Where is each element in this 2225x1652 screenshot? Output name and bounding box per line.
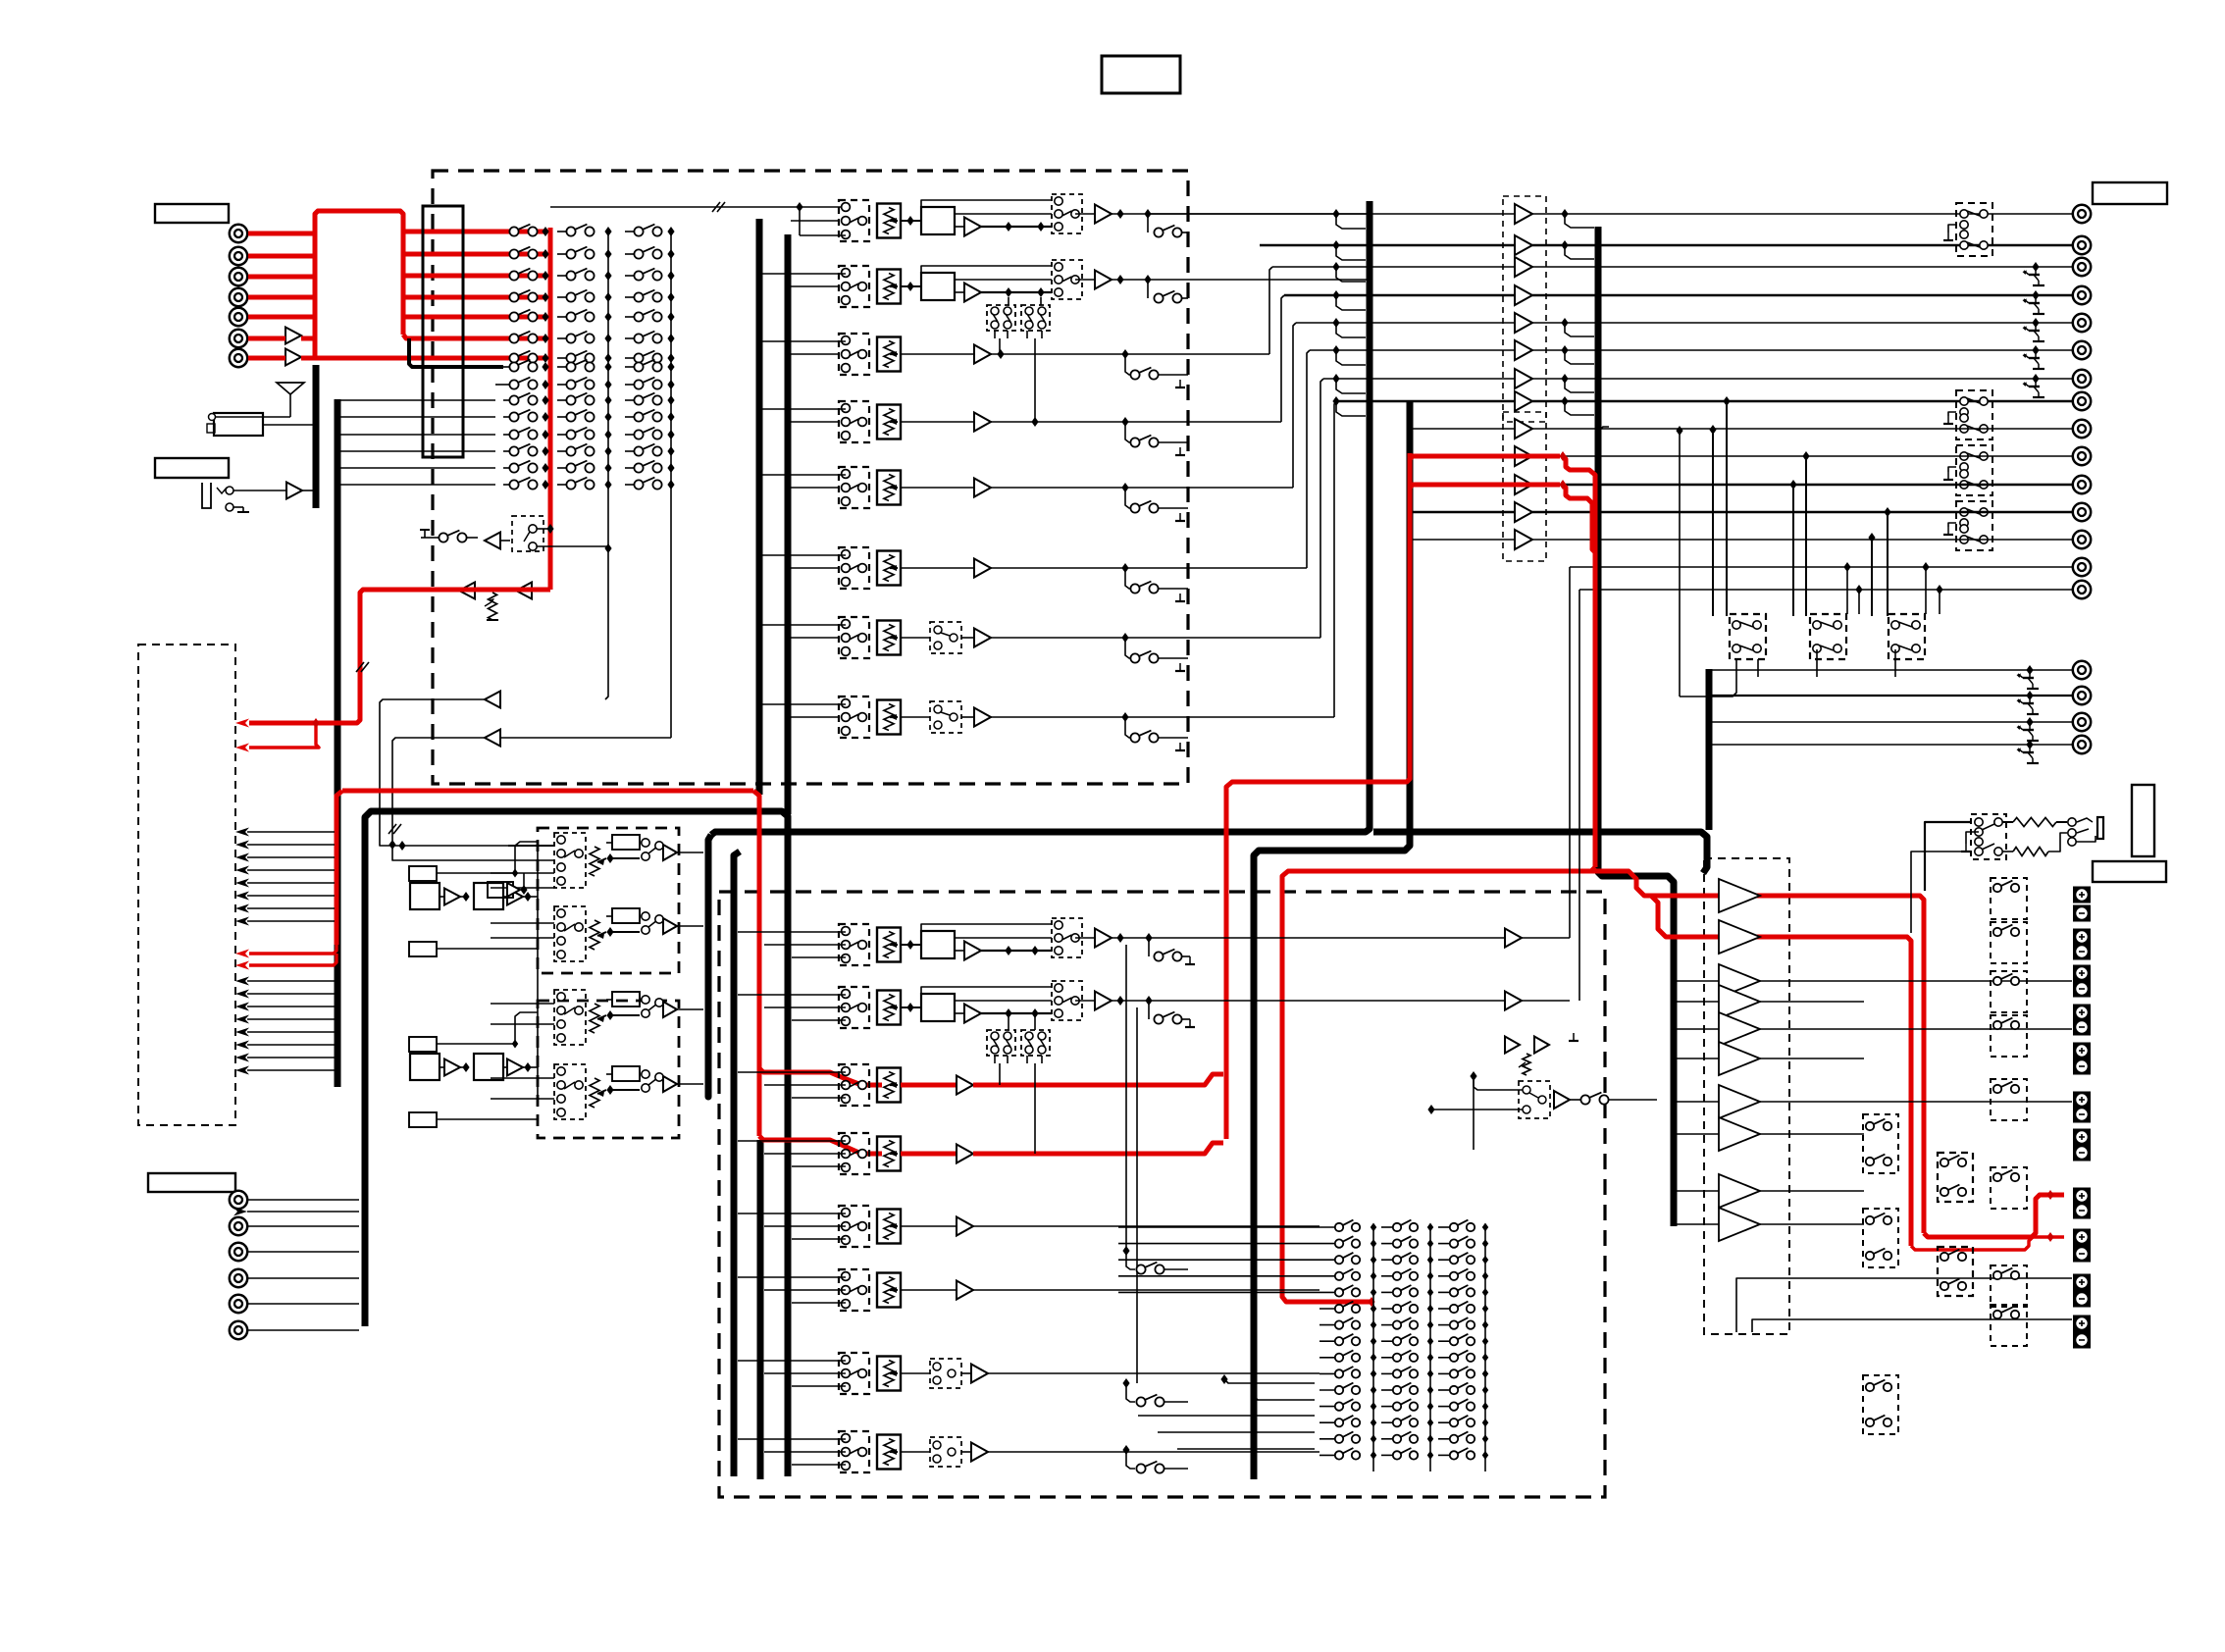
bus channel vertical C2 — [785, 234, 792, 814]
aux connector K2 — [230, 1217, 247, 1235]
st channel L amp — [964, 942, 981, 960]
st-in 1L switch amp — [642, 852, 649, 860]
group bus amp 1 — [1515, 204, 1532, 224]
channel 2 amp — [964, 284, 981, 302]
st-in 2L switch amp — [642, 1009, 649, 1017]
talkback select dashed box — [512, 516, 543, 551]
channel 2 post amp — [1075, 279, 1095, 281]
group out selector box A — [1956, 203, 1992, 256]
tape playback amp A — [285, 328, 301, 344]
channel 1 fader — [877, 204, 901, 238]
talkback amp — [485, 533, 500, 549]
channel pan boxes — [987, 305, 1015, 331]
fader send lines group2 — [247, 980, 335, 982]
aux 2 fader — [877, 1273, 901, 1308]
aux connector K4 — [230, 1269, 247, 1287]
red vertical mid — [1226, 453, 1410, 1139]
dashed box group/aux section — [719, 892, 1605, 1497]
output connector O15 — [2073, 581, 2091, 598]
lower bus amp 2 — [1515, 446, 1532, 466]
osc distribution amps — [459, 583, 475, 599]
aux st L amp — [957, 1076, 973, 1095]
monitor amp 1 — [1719, 879, 1760, 912]
monitor aux send lines — [1712, 669, 2072, 671]
lower bus amp 1 — [1515, 419, 1532, 439]
bus main vertical B1 — [708, 835, 711, 1097]
group bus row 6 — [1310, 349, 1515, 351]
red entry row C — [759, 1068, 882, 1085]
red monitor row L — [1591, 871, 1924, 1233]
phones input amp — [286, 483, 302, 499]
dashed box bus amps upper — [1503, 196, 1546, 422]
monitor amp 9 — [1719, 1174, 1760, 1208]
monitor amp 7 — [1719, 1085, 1760, 1118]
st out risers to stereo rows — [1569, 567, 1571, 938]
st-in feed lines — [508, 845, 554, 847]
aux st R amp — [957, 1145, 973, 1163]
channel 2 mute switch — [1147, 280, 1149, 298]
st channel L select box — [839, 924, 869, 965]
monitor amp 10 — [1719, 1208, 1760, 1241]
tape playback amp B — [285, 349, 301, 366]
group bus row 2 — [1260, 244, 1515, 247]
st channel R amp — [964, 1005, 981, 1023]
channel 8 feed lines — [791, 716, 839, 718]
solo select box — [1519, 1081, 1550, 1118]
st channel R fader — [877, 991, 901, 1025]
monitor select boxes col2 — [1938, 1153, 1973, 1202]
phones resistors — [2002, 821, 2013, 823]
solo amp out — [1554, 1091, 1570, 1109]
eq block group 1 — [409, 866, 437, 881]
output connector O11 — [2073, 476, 2091, 493]
channel 5 fader — [877, 471, 901, 505]
black bundle drop — [409, 338, 503, 367]
aux st L red path — [901, 1083, 957, 1088]
bus vertical left mix — [335, 399, 341, 1087]
phones jack — [202, 483, 211, 508]
label box 2TR IN — [148, 1173, 235, 1192]
st channel L eq box — [921, 931, 955, 958]
aux st R select box — [839, 1133, 869, 1174]
st channel pan boxes — [987, 1030, 1015, 1056]
talkback ground — [421, 537, 429, 539]
st-in feed marks — [388, 824, 396, 834]
aux 3 amp — [901, 1372, 930, 1374]
st channel R post amp — [1075, 1000, 1095, 1002]
group bus row 4 — [1284, 294, 1515, 297]
bus main vertical B3 black tail — [757, 1140, 764, 1479]
aux 3 select box — [839, 1353, 869, 1394]
channel 6 select box — [839, 547, 869, 589]
phones label box — [2093, 861, 2166, 882]
channel 1 post box — [1052, 194, 1082, 233]
red monitor row R — [1651, 896, 1911, 1246]
aux 3 fader — [877, 1357, 901, 1391]
channel 4 out line — [991, 421, 1281, 423]
lower bus feeds from H2 — [1598, 427, 1609, 471]
power supply box — [214, 413, 263, 436]
input connector J6 — [230, 330, 247, 347]
channel 2 feed lines — [791, 285, 839, 287]
bus vertical group right — [1598, 227, 1674, 1226]
channel 1 select box — [839, 200, 869, 241]
channel 5 mute switch — [1121, 483, 1128, 492]
aux st R fader — [877, 1137, 901, 1171]
phones feed lines — [1925, 822, 1971, 891]
aux 4 amp — [901, 1451, 930, 1453]
channel 6 fader — [877, 551, 901, 586]
aux connector K6 — [230, 1321, 247, 1339]
terminal pair T9 — [2073, 1229, 2091, 1246]
red entry row D — [759, 1136, 882, 1154]
phones select box — [1971, 814, 2006, 859]
st bus amps — [1505, 929, 1522, 948]
st channel R select box — [839, 987, 869, 1028]
st-in 2L gain box — [612, 992, 640, 1007]
aux send connector P4 — [2073, 736, 2091, 753]
st-in 2R fader — [590, 1078, 599, 1108]
channel 8 fader — [877, 700, 901, 735]
fader return line bottom — [247, 1211, 359, 1213]
channel 5 amp — [901, 487, 974, 489]
dashed box channel-input section — [433, 171, 1188, 784]
channel 4 mute switch — [1121, 417, 1128, 427]
channel 5 feed lines — [791, 487, 839, 489]
fader send lines group1 — [247, 831, 335, 833]
st channel L mute switch — [1148, 938, 1150, 956]
monitor amp 5 — [1719, 1012, 1760, 1046]
st channel L post box — [1052, 918, 1082, 957]
st-in 2R select — [554, 1064, 586, 1119]
channel 4 amp — [901, 421, 974, 423]
crosspoint matrix bottom — [1319, 1226, 1339, 1228]
group bus amp 6 — [1515, 340, 1532, 360]
st-in 2L fader — [590, 1004, 599, 1033]
output connector O3 — [2073, 258, 2091, 276]
channel 7 fader — [877, 621, 901, 655]
channel 1 post amp — [1075, 213, 1095, 215]
red input feed lines — [248, 232, 315, 236]
input connector J7 — [230, 349, 247, 367]
aux send connector P1 — [2073, 661, 2091, 679]
channel 1 feed lines — [791, 220, 839, 222]
slash mark red vertical — [356, 662, 364, 672]
output connector O10 — [2073, 447, 2091, 465]
bus horizontal H1 — [711, 201, 1370, 835]
channel 2 eq box — [906, 282, 913, 291]
monitor amp 4 — [1719, 985, 1760, 1018]
channel 8 mute switch — [1121, 712, 1128, 722]
channel 8 out line — [991, 716, 1334, 718]
input connector J4 — [230, 288, 247, 306]
output connector O7 — [2073, 370, 2091, 387]
group bus amp 7 — [1515, 369, 1532, 388]
channel 6 mute switch — [1121, 563, 1128, 573]
red terminal R — [1911, 1237, 2064, 1250]
balance risers — [1726, 401, 1728, 616]
mix bus feed lines — [340, 399, 495, 401]
bus main vertical B2 — [734, 852, 740, 1476]
aux connector K5 — [230, 1295, 247, 1313]
terminal pair T1 — [2073, 887, 2091, 903]
col3 return line — [392, 738, 671, 860]
monitor link verticals — [1125, 945, 1127, 1251]
channel 4 fader — [877, 405, 901, 439]
matrix left feeds — [1118, 1226, 1319, 1228]
monitor feed lines — [1674, 980, 1719, 982]
monitor out lines — [1760, 980, 2072, 982]
terminal pair T10 — [2073, 1274, 2091, 1291]
group bus row 1 — [1148, 213, 1515, 215]
group out selector box D — [1956, 501, 1992, 550]
channel 4 select box — [839, 401, 869, 442]
group bus amp 4 — [1515, 285, 1532, 305]
output connector O5 — [2073, 314, 2091, 332]
terminal pair T6 — [2073, 1092, 2091, 1109]
antenna symbol — [277, 383, 304, 394]
dashed box monitor amps — [1704, 858, 1789, 1334]
group bus amp 8 — [1515, 391, 1532, 411]
aux 4 fader — [877, 1435, 901, 1470]
st-in 1L gain box — [612, 835, 640, 850]
st channel R mute switch — [1148, 1001, 1150, 1019]
st-in 1R fader — [590, 920, 599, 950]
phones jack body — [2097, 817, 2103, 839]
aux 4 select box — [839, 1431, 869, 1472]
label box GROUP OUT — [2093, 182, 2167, 204]
channel 7 feed lines — [791, 637, 839, 639]
st-in 1R switch amp — [642, 926, 649, 934]
group bus row 8 — [1337, 400, 1515, 403]
dashed box bus amps lower — [1503, 412, 1546, 561]
talkback switch — [439, 533, 447, 542]
label box block diagram — [1102, 56, 1180, 93]
channel 8 amp — [901, 716, 930, 718]
channel 6 amp — [901, 567, 974, 569]
matrix lower feeds — [1224, 1379, 1315, 1383]
dashed box control/fader section left — [138, 645, 235, 1125]
output connector O6 — [2073, 341, 2091, 359]
st channel R post box — [1052, 981, 1082, 1020]
st channel feed stubs — [738, 931, 846, 933]
monitor amp 3 — [1719, 964, 1760, 998]
balance switch boxes — [1730, 614, 1766, 659]
bus vertical left input — [313, 365, 320, 508]
bus channel vertical C1 — [756, 219, 763, 795]
red return horizontal y601 — [249, 590, 550, 723]
channel 3 amp — [901, 353, 974, 355]
output connector O4 — [2073, 286, 2091, 304]
terminal pair T8 — [2073, 1188, 2091, 1205]
channel 7 select box — [839, 617, 869, 658]
lower bus amp 3 — [1515, 475, 1532, 494]
red descent east — [1282, 867, 1595, 1302]
channel 6 out line — [991, 567, 1307, 569]
channel 3 mute switch — [1121, 349, 1128, 359]
bus vertical right monitor feed — [1706, 669, 1713, 830]
terminal pair T7 — [2073, 1129, 2091, 1146]
st-in vertical ties — [537, 846, 539, 1099]
bus horizontal H1 east — [1373, 832, 1707, 873]
input connector J1 — [230, 225, 247, 242]
red crosspoint bus — [548, 228, 553, 590]
crosspoint collector col3 — [670, 232, 672, 738]
st-in 2L select — [554, 990, 586, 1045]
output connector O9 — [2073, 420, 2091, 438]
red pair to fader box — [249, 945, 336, 954]
aux st L fader — [877, 1068, 901, 1103]
st-in 1R gain box — [612, 908, 640, 923]
st channel L fader — [877, 928, 901, 962]
monitor bottom out rows — [1736, 1278, 2072, 1332]
monitor select boxes col3 — [1991, 878, 2027, 919]
channel 2 fader — [877, 270, 901, 304]
output connector O12 — [2073, 503, 2091, 521]
channel 1 amp — [964, 218, 981, 236]
aux connector K3 — [230, 1243, 247, 1261]
osc block — [488, 882, 513, 898]
aux send connector P2 — [2073, 687, 2091, 704]
channel 6 feed lines — [791, 567, 839, 569]
terminal pair T2 — [2073, 929, 2091, 946]
red terminal L — [1924, 1195, 2064, 1237]
red return arrow 1 — [235, 719, 249, 728]
label box TAPE IN — [155, 204, 229, 223]
monitor amp 8 — [1719, 1117, 1760, 1151]
red bundle loop — [315, 211, 403, 358]
channel 5 out line — [991, 487, 1293, 489]
right edge tall box — [2132, 785, 2154, 856]
terminal pair T11 — [2073, 1316, 2091, 1332]
channel 4 feed lines — [791, 421, 839, 423]
channel 7 mute switch — [1121, 633, 1128, 643]
phones jack contacts — [2068, 818, 2076, 826]
red return branch — [249, 723, 319, 748]
monitor select boxes col1 — [1863, 1114, 1898, 1173]
group bus row 5 — [1296, 322, 1515, 324]
lower bus lines — [1410, 428, 1515, 430]
terminal pair T3 — [2073, 965, 2091, 982]
st-in 1L fader — [590, 847, 599, 876]
st-in 1R select — [554, 906, 586, 961]
group bus row 7 — [1323, 378, 1515, 380]
lower bus amp 4 — [1515, 502, 1532, 522]
aux st R red path — [901, 1152, 957, 1157]
monitor amp 2 — [1719, 920, 1760, 954]
label box PHONES jack — [155, 458, 229, 478]
aux 1 fader — [877, 1210, 901, 1244]
solo logic amps — [1505, 1037, 1520, 1054]
output connector O1 — [2073, 205, 2091, 223]
input connector J3 — [230, 268, 247, 285]
input connector J5 — [230, 308, 247, 326]
channel 3 feed lines — [791, 353, 839, 355]
output connector O8 — [2073, 392, 2091, 410]
input connector J2 — [230, 247, 247, 265]
red group row L — [1410, 456, 1560, 459]
channel 3 out line — [991, 353, 1269, 355]
line st feed y211 — [550, 206, 846, 208]
channel 7 out line — [991, 637, 1320, 639]
group bus amp 3 — [1515, 257, 1532, 277]
aux connector K1 — [230, 1191, 247, 1209]
crosspoint switch field top — [509, 227, 518, 235]
aux send connector P3 — [2073, 713, 2091, 731]
st channel R eq box — [921, 994, 955, 1021]
output connector O2 — [2073, 236, 2091, 254]
monitor area switches lower left — [1122, 1246, 1129, 1256]
output mute transistors — [2032, 262, 2039, 272]
insert block rectangle — [423, 206, 463, 457]
monitor amp 6 — [1719, 1042, 1760, 1075]
channel 3 fader — [877, 337, 901, 372]
group bus row 3 — [1272, 266, 1515, 268]
matrix collectors — [1372, 1227, 1374, 1471]
bus horizontal H2 — [1254, 400, 1410, 1479]
bus main vertical B4 — [365, 811, 788, 1476]
channel 1 mute switch — [1147, 214, 1149, 232]
st-in 2R gain box — [612, 1066, 640, 1081]
red channel bridge y806 — [342, 789, 753, 794]
terminal pair T5 — [2073, 1043, 2091, 1059]
channel 7 amp — [901, 637, 930, 639]
channel 8 select box — [839, 697, 869, 738]
st-in 1L select — [554, 833, 586, 888]
terminal pair T4 — [2073, 1005, 2091, 1021]
crosspoint collector col2 — [607, 232, 609, 548]
red group row R — [1410, 485, 1560, 488]
st-in 2R switch amp — [642, 1084, 649, 1092]
aux 1 select box — [839, 1206, 869, 1247]
aux st L select box — [839, 1064, 869, 1106]
channel 2 select box — [839, 266, 869, 307]
aux 1 amp — [901, 1225, 957, 1227]
aux 2 amp — [901, 1289, 957, 1291]
group bus amp 5 — [1515, 313, 1532, 333]
red fan rows — [403, 230, 545, 234]
col2 return line — [605, 548, 608, 699]
aux 2 select box — [839, 1269, 869, 1311]
channel 3 select box — [839, 334, 869, 375]
solo feed lines — [1470, 1071, 1476, 1081]
output connector O13 — [2073, 531, 2091, 548]
stereo out rows — [1570, 566, 2072, 568]
group out selector box B — [1956, 390, 1992, 439]
channel 1 eq box — [906, 216, 913, 226]
group bus amp 2 — [1515, 235, 1532, 255]
st channel L post amp — [1075, 937, 1095, 939]
channel 2 post box — [1052, 260, 1082, 299]
dashed box st-in A — [538, 828, 679, 973]
group out selector box C — [1956, 445, 1992, 495]
dashed box st-in B — [538, 1001, 679, 1138]
channel 5 select box — [839, 467, 869, 508]
output connector O14 — [2073, 558, 2091, 576]
lower bus amp 5 — [1515, 530, 1532, 549]
